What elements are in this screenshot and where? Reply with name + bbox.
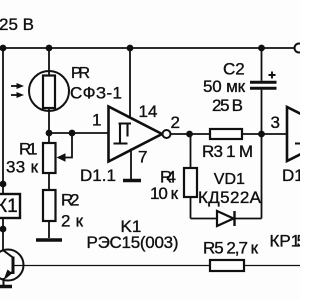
svg-text:1: 1 — [92, 111, 101, 130]
svg-text:33 к: 33 к — [6, 158, 39, 177]
svg-text:PR: PR — [71, 65, 90, 82]
svg-text:СФЗ-1: СФЗ-1 — [70, 84, 122, 103]
svg-text:50 мк: 50 мк — [203, 77, 246, 96]
svg-text:D1.2: D1.2 — [282, 166, 300, 185]
svg-text:КР1561: КР1561 — [270, 232, 301, 251]
svg-text:10 к: 10 к — [150, 184, 179, 203]
svg-text:К1: К1 — [0, 196, 18, 217]
svg-text:R5 2,7 к: R5 2,7 к — [203, 239, 259, 258]
svg-text:РЭС15(003): РЭС15(003) — [87, 233, 179, 252]
svg-text:R1: R1 — [19, 140, 38, 159]
svg-text:R3 1 М: R3 1 М — [202, 142, 253, 161]
svg-text:25 В: 25 В — [0, 15, 34, 34]
svg-text:VD1: VD1 — [214, 171, 245, 188]
svg-text:25 В: 25 В — [212, 96, 243, 115]
svg-text:3: 3 — [271, 113, 280, 132]
svg-text:C2: C2 — [223, 60, 245, 79]
svg-text:14: 14 — [139, 102, 158, 121]
svg-text:2 к: 2 к — [61, 212, 84, 231]
svg-text:7: 7 — [138, 148, 147, 167]
svg-text:R2: R2 — [61, 191, 80, 210]
svg-text:КД522А: КД522А — [198, 188, 262, 207]
svg-text:D1.1: D1.1 — [80, 166, 116, 185]
svg-text:2: 2 — [171, 113, 180, 132]
